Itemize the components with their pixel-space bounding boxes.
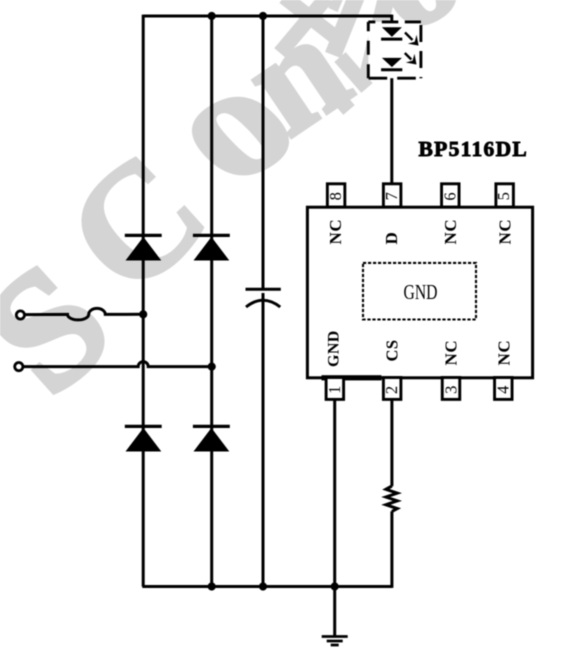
bridge diode D2 <box>193 235 230 260</box>
junction dot top rail/V3 <box>259 12 267 20</box>
svg-text:GND: GND <box>404 280 438 304</box>
svg-text:NC: NC <box>442 340 461 366</box>
watermark <box>0 0 486 429</box>
svg-text:BP5116DL: BP5116DL <box>419 137 529 161</box>
svg-text:8: 8 <box>326 192 345 200</box>
pin 6 <box>441 184 460 207</box>
capacitor C1 <box>246 289 281 307</box>
wire capacitor vertical V3 upper <box>262 16 265 288</box>
junction dot bottom rail/V2 <box>208 582 216 590</box>
wire left vertical V1 <box>142 15 145 587</box>
svg-text:5: 5 <box>494 192 513 200</box>
svg-text:NC: NC <box>494 340 513 366</box>
IC pin1 marker bar <box>322 375 382 380</box>
wire input N with hop over V1 <box>23 362 212 367</box>
bridge diode D3 <box>125 426 162 451</box>
junction dot top rail/V2 <box>208 12 216 20</box>
svg-text:4: 4 <box>494 386 513 394</box>
svg-text:NC: NC <box>441 219 460 245</box>
wire capacitor vertical V3 lower <box>262 293 265 587</box>
junction dot fuse/V1 <box>139 310 147 318</box>
pin 8 <box>326 184 345 207</box>
svg-text:3: 3 <box>441 386 460 394</box>
pin 7 <box>382 184 401 207</box>
LED LED2 arrow <box>405 53 417 65</box>
svg-text:1: 1 <box>325 386 344 394</box>
pin 4 <box>494 378 513 400</box>
pin 3 <box>441 378 460 400</box>
wire middle vertical V2 <box>210 16 213 587</box>
wire pin 2 to resistor <box>390 400 393 486</box>
LED LED2 <box>381 58 402 70</box>
svg-text:D: D <box>382 232 401 245</box>
IC U1 body <box>307 207 532 378</box>
bridge diode D1 <box>125 235 162 260</box>
pin 2 <box>382 378 401 400</box>
resistor R1 <box>386 486 397 511</box>
watermark stroke fragments (top) <box>280 0 387 110</box>
svg-text:CS: CS <box>383 339 402 361</box>
GND thermal pad (dashed) <box>363 263 476 320</box>
bridge diode D4 <box>193 426 230 451</box>
svg-text:NC: NC <box>326 219 345 245</box>
svg-text:NC: NC <box>495 219 514 245</box>
pin 5 <box>494 184 513 207</box>
ground <box>322 637 348 646</box>
junction dot bottom rail/pin1 wire <box>331 582 339 590</box>
svg-text:GND: GND <box>326 330 343 367</box>
LED LED1 <box>381 27 402 39</box>
wire pin 1 to bottom rail <box>333 400 336 587</box>
fuse F1 <box>25 308 143 319</box>
wire ground stem <box>333 587 336 636</box>
wire top rail <box>143 15 392 18</box>
svg-text:6: 6 <box>441 192 460 200</box>
junction dot bottom rail/V3 <box>259 582 267 590</box>
terminal input N <box>15 363 23 371</box>
wire LED branch down to pin 7 <box>390 15 393 184</box>
LED dashed enclosure <box>368 22 421 78</box>
junction dot N wire/V2 <box>208 363 216 371</box>
pin 1 <box>325 378 344 400</box>
svg-text:2: 2 <box>382 386 401 394</box>
terminal input L <box>16 311 24 319</box>
svg-text:7: 7 <box>382 192 401 200</box>
LED LED1 arrow <box>405 33 419 46</box>
wire resistor to bottom rail <box>390 511 393 588</box>
wire bottom rail <box>142 585 392 588</box>
